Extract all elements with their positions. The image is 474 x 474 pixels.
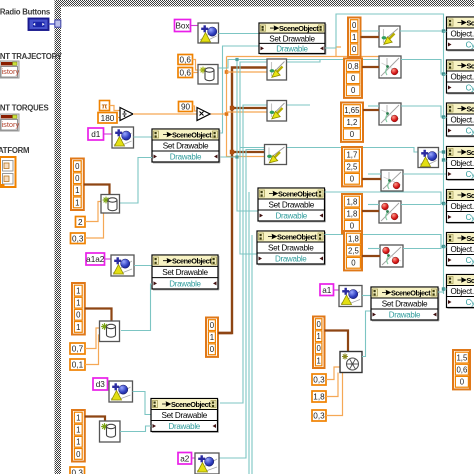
svg-text:Box: Box — [175, 22, 189, 31]
svg-text:0,8: 0,8 — [348, 62, 359, 71]
wire brown A3-R3 — [363, 109, 379, 111]
label PLATFORM — [0, 146, 29, 155]
wire teal bus-stub 4 — [444, 160, 447, 162]
svg-text:Object...: Object... — [451, 30, 474, 39]
svg-text:0: 0 — [76, 450, 81, 459]
wire teal v4 — [220, 150, 265, 459]
wire brown arr1110 to cyl3 — [85, 417, 105, 422]
wire teal R4-out — [403, 173, 447, 175]
wire brown A5-R5 — [362, 210, 379, 212]
wire teal create-to-node1 — [134, 136, 153, 138]
svg-text:2: 2 — [78, 218, 83, 227]
svg-text:1: 1 — [76, 414, 80, 423]
wire teal R2-out — [401, 60, 447, 75]
svg-text:a2: a2 — [180, 454, 190, 463]
svg-text:0: 0 — [351, 86, 356, 95]
svg-text:1: 1 — [352, 33, 356, 42]
numeric constant 0,1 — [70, 359, 85, 370]
svg-text:SceneObject: SceneObject — [467, 234, 474, 243]
label JOINT TRAJECTORY — [0, 52, 63, 61]
numeric constant 0,3 b2 — [312, 410, 326, 421]
numeric constant 0,6 a — [178, 55, 193, 65]
string constant d1 — [88, 128, 104, 140]
invoke node right 7 SceneObject — [447, 275, 474, 309]
svg-text:Drawable: Drawable — [275, 255, 307, 264]
wire a1a2 to create — [105, 258, 112, 260]
wire a2 to create — [192, 457, 196, 459]
wire 0,7 to cyl2 — [85, 328, 99, 349]
wire teal create-to-node4 — [362, 295, 371, 297]
wire teal create-to-node2 — [134, 265, 152, 267]
svg-text:1: 1 — [75, 198, 79, 207]
numeric constant 0,3 b1 — [312, 374, 326, 385]
wire teal v3 — [220, 105, 267, 403]
svg-text:Cyl: Cyl — [466, 41, 474, 50]
wire teal R6-in — [368, 248, 380, 250]
wire brown arr1101 to cyl2 — [85, 309, 112, 322]
svg-text:INT TRAJECTORY: INT TRAJECTORY — [0, 52, 63, 61]
svg-text:1,7: 1,7 — [346, 151, 357, 160]
junction brown B — [230, 150, 234, 154]
invoke node right 2 SceneObject — [447, 60, 474, 94]
wire teal create-to-node3 — [133, 392, 152, 415]
svg-text:0,3: 0,3 — [72, 469, 84, 474]
svg-text:Drawable: Drawable — [276, 212, 308, 221]
junction teal bus 6 — [442, 245, 445, 248]
string constant a1 — [320, 284, 334, 296]
wire orange A1 stub — [336, 47, 341, 57]
wire teal R1-out — [400, 30, 447, 32]
array constant 1,65 1,2 0 — [341, 103, 363, 142]
svg-text:SceneObject: SceneObject — [279, 24, 319, 33]
svg-text:1: 1 — [316, 332, 320, 341]
invoke node right 4 SceneObject — [447, 147, 474, 181]
svg-text:SceneObject: SceneObject — [391, 289, 431, 298]
vi translate M3 — [265, 145, 287, 165]
vi rotate R3 — [379, 103, 401, 125]
svg-text:0: 0 — [350, 175, 355, 184]
junction teal v1-157 — [235, 155, 238, 158]
numeric constant bottom left — [70, 467, 85, 474]
vi create-sphere wheel — [340, 352, 362, 373]
wire 0,6a to cylinder — [193, 60, 199, 71]
svg-text:Set Drawable: Set Drawable — [268, 201, 314, 210]
invoke node 2 SceneObject — [152, 255, 219, 290]
svg-text:1,8: 1,8 — [348, 235, 359, 244]
wire brown A4-R4 — [362, 178, 381, 180]
vi rotate R2 — [379, 56, 401, 78]
svg-text:Cyl: Cyl — [466, 127, 474, 136]
wire a1 to create — [334, 289, 340, 291]
svg-text:SceneObject: SceneObject — [467, 276, 474, 285]
wire teal top bus — [325, 14, 444, 294]
svg-text:Set Drawable: Set Drawable — [382, 300, 428, 309]
vi create-object Box — [198, 23, 219, 43]
wire teal bus-stub 6 — [444, 246, 447, 248]
vi translate R1 — [379, 26, 400, 47]
vi create-object a2 — [195, 453, 219, 474]
svg-text:1: 1 — [75, 186, 79, 195]
svg-text:Object...: Object... — [451, 159, 474, 168]
vi create-object a1 — [339, 286, 362, 307]
wire 0,6b to cylinder — [193, 72, 199, 74]
wire teal nodeB-header-out — [325, 235, 447, 247]
svg-text:1: 1 — [76, 426, 80, 435]
vi create-cylinder 1 — [101, 195, 120, 214]
junction teal bus 2 — [442, 72, 445, 75]
numeric constant 0,7 — [70, 343, 85, 354]
vi create-cylinder top — [198, 65, 218, 85]
svg-text:Object...: Object... — [451, 116, 474, 125]
wire brown A2-R2 — [362, 66, 379, 68]
wire teal A1-under to R1 — [361, 30, 379, 32]
svg-text:Cyl: Cyl — [466, 170, 474, 179]
wire brown vertical bus — [218, 68, 268, 334]
svg-text:180: 180 — [101, 114, 115, 123]
svg-text:0,6: 0,6 — [180, 69, 192, 78]
numeric constant 90 — [179, 102, 193, 112]
svg-text:0,3: 0,3 — [313, 376, 325, 385]
svg-text:1: 1 — [316, 356, 320, 365]
numeric constant pi — [100, 101, 110, 111]
wire teal node1-header to top node drawable — [219, 46, 259, 133]
wire brown arr0011 to cyl1 — [84, 185, 110, 196]
svg-text:Drawable: Drawable — [169, 279, 201, 288]
svg-text:Cyl: Cyl — [466, 213, 474, 222]
wire brown A1-R1 — [361, 36, 380, 38]
svg-text:Cyl: Cyl — [466, 84, 474, 93]
wire teal long top — [218, 60, 379, 69]
wire d3 to create — [108, 383, 110, 385]
svg-text:1,2: 1,2 — [346, 118, 357, 127]
wire teal v2 — [240, 62, 267, 254]
svg-text:1,8: 1,8 — [346, 198, 357, 207]
wire brown to M2 — [231, 107, 267, 109]
vi create-object d1 — [112, 127, 134, 148]
wire d1 to create — [104, 133, 113, 135]
vi rotate R5 — [379, 201, 401, 223]
wire teal R3-out — [401, 106, 447, 117]
chart terminal trajectory history — [0, 61, 19, 78]
wire Box to create — [191, 25, 199, 27]
array constant 1110 — [72, 410, 85, 462]
svg-text:0: 0 — [352, 21, 357, 30]
string constant a1a2 — [86, 253, 105, 265]
wire teal v1 — [237, 60, 258, 212]
svg-text:1: 1 — [76, 323, 80, 332]
svg-text:1: 1 — [76, 299, 80, 308]
wire orange multiply-out to bus — [210, 113, 227, 115]
svg-text:Object...: Object... — [451, 202, 474, 211]
wire brown A6-R6 — [362, 255, 380, 257]
svg-text:Set Drawable: Set Drawable — [163, 142, 209, 151]
divide node — [120, 108, 133, 121]
numeric constant 2 — [76, 217, 86, 228]
svg-text:Cyl: Cyl — [466, 256, 474, 265]
junction teal bus 1 — [442, 29, 445, 32]
invoke node 4 SceneObject — [371, 287, 439, 321]
array constant 0101 — [313, 317, 325, 369]
array constant 010 center — [206, 318, 218, 357]
invoke node top SceneObject — [259, 23, 326, 55]
svg-text:SceneObject: SceneObject — [171, 400, 211, 409]
svg-text:a1: a1 — [322, 286, 332, 295]
vi rotate R4 — [381, 170, 403, 191]
wire teal bus-stub 7 — [444, 288, 447, 290]
wire orange vertical bus — [227, 57, 265, 157]
wire teal v6 — [251, 235, 253, 474]
wire orange to M2 — [227, 111, 268, 113]
svg-text:1,65: 1,65 — [344, 106, 360, 115]
wire divide to multiply — [133, 113, 197, 115]
wire 0,3 to cyl1 — [85, 208, 104, 239]
vi create-object a1a2 — [111, 255, 134, 276]
vi create-cylinder 3 — [100, 421, 121, 442]
array constant 1,8 2,5 0 — [344, 231, 362, 270]
wire brown arr0101 to wheel — [325, 331, 349, 353]
wire teal bus-stub 2 — [444, 74, 447, 76]
chart terminal torques history — [0, 114, 19, 131]
svg-text:0: 0 — [76, 311, 81, 320]
svg-text:1,8: 1,8 — [313, 393, 325, 402]
wire teal node1-drawable-out down — [219, 156, 237, 158]
wire teal create-to-node-top — [219, 33, 260, 35]
wire 0,3b1 to wheel — [326, 367, 340, 380]
junction teal bus 7 — [442, 287, 445, 290]
svg-text:SceneObject: SceneObject — [277, 233, 317, 242]
wire teal R4-in — [368, 173, 381, 175]
wire brown to M3 — [231, 151, 265, 153]
vi translate M2 — [267, 101, 287, 122]
junction teal bus 5 — [442, 202, 445, 205]
svg-text:90: 90 — [181, 103, 191, 112]
invoke node right 1 SceneObject — [447, 17, 474, 51]
svg-text:SceneObject: SceneObject — [467, 62, 474, 71]
invoke node 1 SceneObject — [152, 129, 220, 163]
wire teal cyl3-to-node3-drawable — [120, 426, 151, 432]
wire teal nodeA-header-out — [325, 192, 447, 204]
wire teal N7-in — [444, 288, 447, 290]
junction teal bus 3 — [442, 115, 445, 118]
platform cluster terminal — [0, 157, 16, 187]
wire teal M3-in upper — [240, 148, 418, 153]
invoke node right 3 SceneObject — [447, 103, 474, 137]
wire teal node4-header-out — [438, 291, 444, 293]
junction teal bus 4 — [442, 158, 445, 161]
svg-text:0,1: 0,1 — [72, 361, 84, 370]
wire teal R6-out — [403, 247, 441, 249]
array constant 010 right — [348, 18, 361, 57]
svg-text:0: 0 — [351, 74, 356, 83]
invoke node right 6 SceneObject — [447, 233, 474, 267]
svg-text:π: π — [102, 102, 108, 111]
wire 90 to multiply — [193, 106, 198, 111]
svg-text:0: 0 — [350, 222, 355, 231]
numeric constant 1,8 b — [312, 391, 326, 402]
label Radio Buttons — [0, 8, 51, 17]
svg-text:0,6: 0,6 — [180, 56, 192, 65]
label JOINT TORQUES — [0, 104, 48, 113]
junction teal v1-top — [235, 58, 238, 61]
numeric constant 0,6 b — [178, 68, 193, 78]
while-loop border top — [55, 0, 474, 7]
svg-text:SceneObject: SceneObject — [467, 148, 474, 157]
svg-text:Drawable: Drawable — [170, 153, 202, 162]
wire orange long-top end — [227, 56, 380, 58]
svg-text:SceneObject: SceneObject — [467, 19, 474, 28]
array constant 1,8 1,8 0 — [342, 194, 362, 233]
loop tunnel — [55, 20, 61, 27]
svg-text:Object...: Object... — [451, 287, 474, 296]
svg-text:1,8: 1,8 — [346, 210, 357, 219]
numeric constant 180 — [98, 113, 117, 124]
svg-text:0: 0 — [210, 345, 215, 354]
svg-text:ATFORM: ATFORM — [0, 146, 29, 155]
svg-text:0: 0 — [352, 45, 357, 54]
svg-text:istory: istory — [2, 67, 20, 76]
invoke node mid-B SceneObject — [257, 231, 326, 265]
svg-text:d1: d1 — [91, 130, 101, 139]
svg-text:Drawable: Drawable — [169, 422, 201, 431]
svg-text:Object...: Object... — [451, 73, 474, 82]
svg-text:0,6: 0,6 — [456, 366, 467, 375]
wire 180 to divide — [117, 117, 120, 119]
svg-text:2,5: 2,5 — [346, 163, 358, 172]
wire brown arr010-to-bus — [218, 332, 232, 334]
svg-text:lRadio Buttons: lRadio Buttons — [0, 8, 51, 17]
svg-text:0: 0 — [75, 162, 80, 171]
svg-text:d3: d3 — [96, 380, 106, 389]
wire radio-to-tunnel — [49, 23, 56, 25]
wire pi to divide — [110, 106, 121, 111]
svg-text:SceneObject: SceneObject — [467, 105, 474, 114]
vi rotate R6 — [380, 245, 403, 267]
multiply node — [197, 108, 210, 121]
wire teal bus-stub 1 — [444, 31, 447, 33]
svg-text:0,3: 0,3 — [313, 412, 325, 421]
svg-text:a1a2: a1a2 — [86, 255, 105, 264]
numeric constant 0,3 left — [71, 233, 86, 244]
vi translate M1 — [267, 59, 287, 80]
junction brown A — [230, 106, 234, 110]
svg-text:Set Drawable: Set Drawable — [162, 268, 208, 277]
svg-text:Drawable: Drawable — [276, 45, 308, 54]
invoke node mid-A SceneObject — [258, 188, 326, 222]
radio buttons terminal — [29, 19, 49, 31]
wire teal wheel-out — [362, 311, 371, 357]
array constant 0011 — [71, 159, 84, 211]
array constant 1101 — [72, 283, 85, 335]
svg-text:1: 1 — [76, 287, 80, 296]
invoke node 3 SceneObject — [151, 399, 219, 433]
svg-text:Set Drawable: Set Drawable — [268, 244, 314, 253]
svg-text:INT TORQUES: INT TORQUES — [0, 104, 48, 113]
wire 0,1 to cyl2 — [85, 335, 99, 365]
wire teal cyl1-to-node1-drawable — [120, 158, 153, 204]
junction orange B — [225, 112, 229, 116]
svg-text:Cyl: Cyl — [466, 298, 474, 307]
array constant 0,8 0 0 — [344, 59, 362, 98]
svg-text:1: 1 — [76, 438, 80, 447]
svg-text:0: 0 — [351, 259, 356, 268]
vi create-object floating — [418, 148, 439, 168]
svg-text:0,3: 0,3 — [72, 234, 84, 243]
wire orange to M1 — [227, 71, 268, 73]
svg-text:1: 1 — [210, 333, 214, 342]
vi create-object d3 — [109, 381, 133, 402]
wire teal cyl2-to-node2-drawable — [121, 284, 152, 331]
wire teal R5-out — [401, 204, 441, 206]
wire teal bus-stub 3 — [444, 117, 447, 119]
svg-text:0,7: 0,7 — [72, 345, 84, 354]
while-loop border left — [55, 0, 62, 474]
svg-text:0: 0 — [316, 344, 321, 353]
svg-text:2,5: 2,5 — [348, 247, 360, 256]
string constant d3 — [93, 378, 108, 390]
wire teal v5 — [248, 192, 250, 474]
svg-text:SceneObject: SceneObject — [278, 190, 318, 199]
svg-text:istory: istory — [2, 120, 20, 129]
wire teal bus-stub 5 — [444, 203, 447, 205]
array constant 1,7 2,5 0 — [342, 147, 362, 186]
wire teal M1-out — [287, 60, 320, 63]
svg-text:0: 0 — [75, 174, 80, 183]
svg-text:Drawable: Drawable — [389, 311, 421, 320]
wire teal create-floating-out — [439, 151, 444, 153]
invoke node right 5 SceneObject — [447, 190, 474, 224]
string constant Box — [175, 20, 191, 32]
svg-text:SceneObject: SceneObject — [172, 131, 212, 140]
wire 2 to cyl1 — [85, 202, 101, 222]
wire 1,8b to wheel — [326, 373, 338, 397]
wire teal R5-in — [368, 204, 379, 206]
svg-text:Set Drawable: Set Drawable — [269, 34, 315, 43]
svg-text:0: 0 — [350, 130, 355, 139]
wire 0,3b2 to wheel — [326, 373, 343, 416]
svg-text:0: 0 — [210, 321, 215, 330]
svg-text:0: 0 — [316, 320, 321, 329]
string constant a2 — [178, 453, 192, 465]
junction teal create-floating — [442, 150, 445, 153]
svg-text:Object...: Object... — [451, 245, 474, 254]
svg-text:Set Drawable: Set Drawable — [161, 411, 207, 420]
wire teal M2-out — [287, 104, 310, 106]
svg-text:0: 0 — [460, 378, 465, 387]
junction orange A — [225, 70, 229, 74]
svg-text:SceneObject: SceneObject — [172, 257, 212, 266]
array constant 1,5 0,6 0 bottom — [453, 350, 470, 389]
vi create-cylinder 2 — [100, 321, 120, 342]
svg-text:SceneObject: SceneObject — [467, 191, 474, 200]
wire teal R3-in — [368, 105, 379, 107]
svg-text:1,5: 1,5 — [456, 354, 468, 363]
